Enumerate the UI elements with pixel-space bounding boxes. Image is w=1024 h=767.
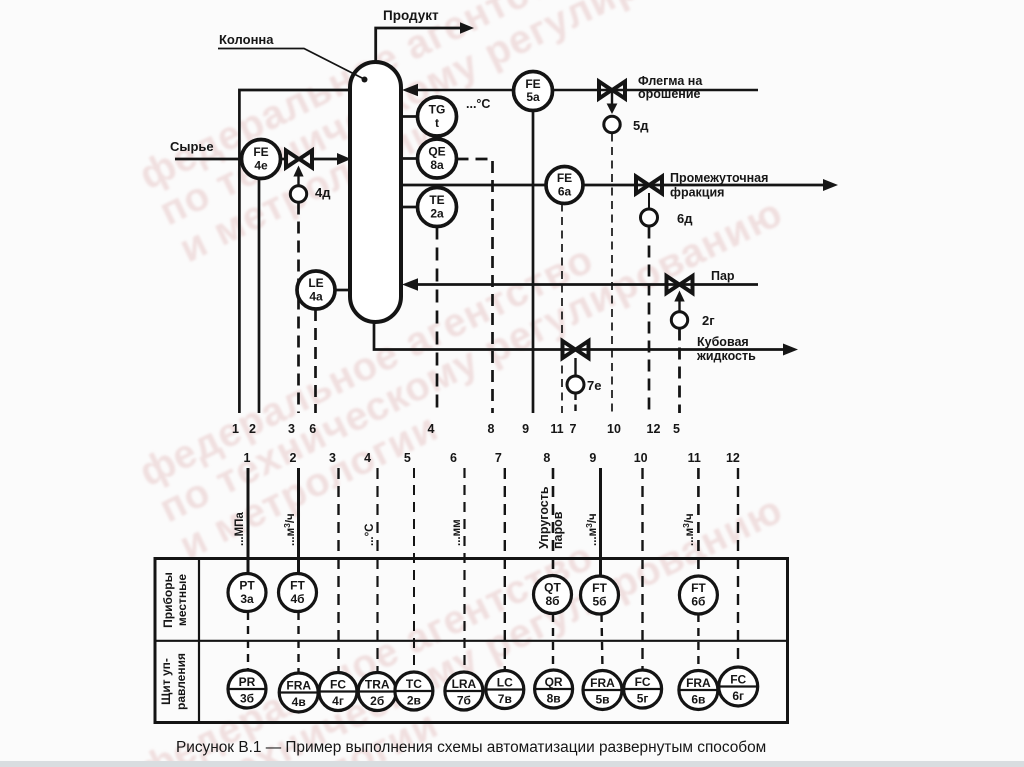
svg-text:FE: FE <box>557 171 572 185</box>
svg-text:QR: QR <box>545 675 563 689</box>
svg-text:4б: 4б <box>290 592 304 606</box>
unit label col6 мм <box>451 519 463 546</box>
table row divider <box>155 640 788 642</box>
instrument FC 4г <box>319 673 357 711</box>
svg-text:LE: LE <box>308 276 323 290</box>
bottom edge shade <box>0 761 1024 767</box>
valve 5д <box>599 82 625 115</box>
wire feed to column <box>312 158 338 161</box>
column <box>350 62 401 322</box>
svg-text:4а: 4а <box>309 290 323 304</box>
instrument QT 8б <box>534 576 572 614</box>
svg-text:Пар: Пар <box>711 269 735 283</box>
caption <box>176 739 766 756</box>
svg-text:LC: LC <box>497 676 513 690</box>
watermark block 2 line 1 <box>133 237 601 495</box>
svg-text:4: 4 <box>428 422 435 436</box>
svg-text:11: 11 <box>550 422 563 436</box>
label 6д <box>677 211 693 226</box>
svg-text:орошение: орошение <box>638 87 701 101</box>
watermark block 2 line 2 <box>153 190 790 531</box>
svg-text:...МПа: ...МПа <box>234 512 246 546</box>
wire line 3 <box>297 203 300 414</box>
table label divider <box>198 559 200 723</box>
svg-text:7: 7 <box>495 451 502 465</box>
valve 7 bottoms <box>563 341 589 376</box>
svg-text:t: t <box>435 116 439 130</box>
wire col10 <box>641 468 643 670</box>
svg-text:...м3/ч: ...м3/ч <box>681 513 696 546</box>
wire line 5 <box>678 329 681 414</box>
svg-text:...м3/ч: ...м3/ч <box>584 513 599 546</box>
svg-text:...°С: ...°С <box>364 524 376 547</box>
instrument LC 7в <box>486 671 524 709</box>
unit label col8 Упругость паров <box>537 486 565 549</box>
svg-text:местные: местные <box>175 574 189 626</box>
svg-text:2г: 2г <box>702 313 715 328</box>
svg-text:паров: паров <box>551 511 565 549</box>
wire line 7 tail <box>574 394 576 414</box>
label ...°C <box>466 97 490 111</box>
svg-text:Кубовая: Кубовая <box>697 335 749 349</box>
actuator 5д <box>604 116 620 132</box>
svg-text:Рисунок В.1 — Пример выполнен: Рисунок В.1 — Пример выполнения схемы ав… <box>176 739 766 756</box>
svg-text:7е: 7е <box>587 378 601 393</box>
arrow steam into column <box>402 278 418 291</box>
svg-text:LRA: LRA <box>452 677 477 691</box>
instrument FC 5г <box>624 670 662 708</box>
watermark block 3 line 1 <box>133 534 601 767</box>
svg-text:FRA: FRA <box>590 676 615 690</box>
instrument QR 8в <box>535 670 573 708</box>
unit label col1 МПа <box>234 512 246 546</box>
svg-text:5в: 5в <box>595 693 609 707</box>
wire col3 <box>337 468 339 673</box>
svg-text:Упругость: Упругость <box>537 486 551 549</box>
svg-text:3: 3 <box>288 422 295 436</box>
svg-text:10: 10 <box>634 451 648 465</box>
svg-text:8: 8 <box>488 422 495 436</box>
instrument TG t <box>402 97 457 136</box>
svg-text:2б: 2б <box>370 694 384 708</box>
svg-text:1: 1 <box>232 422 239 436</box>
wire col2 <box>297 468 300 674</box>
valve 6д <box>636 177 662 210</box>
arrow product <box>460 22 474 33</box>
instrument TRA 2б <box>358 673 396 711</box>
wire reflux return line <box>417 89 758 91</box>
instrument FC 6г <box>719 667 758 706</box>
svg-text:8в: 8в <box>547 692 561 706</box>
instrument FRA 4в <box>279 673 318 712</box>
svg-text:равления: равления <box>174 653 188 710</box>
svg-text:FE: FE <box>525 77 540 91</box>
instrument FE 4e <box>242 140 281 179</box>
svg-text:8а: 8а <box>430 158 444 172</box>
wire col11 <box>697 468 700 670</box>
svg-text:10: 10 <box>607 422 621 436</box>
wire line 4 <box>436 227 439 414</box>
svg-text:TE: TE <box>429 193 444 207</box>
svg-text:6в: 6в <box>691 693 705 707</box>
svg-text:1: 1 <box>244 451 251 465</box>
svg-text:Щит уп-: Щит уп- <box>159 658 173 705</box>
wire line 8 <box>457 159 493 413</box>
svg-text:6: 6 <box>309 422 316 436</box>
instrument FE 5a <box>514 72 553 111</box>
svg-text:QT: QT <box>544 581 561 595</box>
svg-text:жидкость: жидкость <box>696 349 756 363</box>
svg-text:Сырье: Сырье <box>170 139 214 154</box>
svg-text:Приборы: Приборы <box>161 572 175 628</box>
wire feed line <box>175 158 242 161</box>
instrument FT 4б <box>279 574 317 612</box>
wire col6 <box>463 468 465 672</box>
svg-text:4в: 4в <box>292 695 306 709</box>
svg-text:8: 8 <box>543 451 550 465</box>
instrument FRA 5в <box>583 671 622 710</box>
label Продукт <box>383 8 439 23</box>
svg-text:FT: FT <box>691 581 706 595</box>
instrument TE 2a <box>402 188 457 227</box>
arrow intermediate fraction <box>823 179 838 191</box>
instrument LE 4a <box>297 271 350 309</box>
svg-text:TC: TC <box>406 677 422 691</box>
wire bottoms line <box>374 320 784 350</box>
label 5д <box>633 118 649 133</box>
svg-text:...мм: ...мм <box>451 519 463 546</box>
wire col8 <box>552 468 555 670</box>
instrument QE 8a <box>402 139 457 178</box>
svg-text:12: 12 <box>647 422 661 436</box>
instrument PR 3б <box>228 670 266 708</box>
svg-text:3: 3 <box>329 451 336 465</box>
svg-text:2а: 2а <box>430 207 444 221</box>
wire line 11 <box>561 204 563 414</box>
svg-text:QE: QE <box>428 145 445 159</box>
svg-text:5: 5 <box>404 451 411 465</box>
instrument FT 6б <box>679 576 717 614</box>
svg-text:9: 9 <box>589 451 596 465</box>
wire line 9 <box>532 111 535 414</box>
svg-text:8б: 8б <box>545 594 559 608</box>
label Сырье <box>170 139 214 154</box>
wire feed to valve <box>281 158 288 161</box>
svg-text:5б: 5б <box>592 595 606 609</box>
svg-text:...м3/ч: ...м3/ч <box>282 513 297 546</box>
unit label col4 °C <box>364 524 376 547</box>
svg-text:4е: 4е <box>254 159 268 173</box>
svg-text:5: 5 <box>673 422 680 436</box>
wire col5 <box>413 468 415 672</box>
wire col9 <box>601 468 603 670</box>
svg-text:5д: 5д <box>633 118 649 133</box>
label Колонна with leader <box>218 32 368 83</box>
svg-text:фракция: фракция <box>670 186 724 200</box>
wire line 12 <box>648 227 651 414</box>
svg-text:2в: 2в <box>407 694 421 708</box>
svg-text:11: 11 <box>688 451 701 465</box>
watermark block 2 line 3 <box>173 405 445 568</box>
watermark block 1 line 1 <box>133 0 601 198</box>
svg-text:6г: 6г <box>732 689 744 703</box>
svg-text:FRA: FRA <box>686 676 711 690</box>
svg-text:6а: 6а <box>558 185 572 199</box>
label 2г <box>702 313 715 328</box>
valve 2г <box>667 276 693 312</box>
wire steam line <box>418 283 758 286</box>
actuator 7е <box>567 376 584 393</box>
svg-text:...°С: ...°С <box>466 97 490 111</box>
svg-text:FC: FC <box>730 673 746 687</box>
actuator 6д <box>641 209 658 226</box>
svg-text:FC: FC <box>330 678 346 692</box>
wire col4 <box>376 468 378 673</box>
label Пар <box>711 269 735 283</box>
svg-text:7: 7 <box>570 422 577 436</box>
valve 4д <box>286 151 312 168</box>
unit label col2 м3/ч <box>282 513 297 546</box>
label Кубовая жидкость <box>696 335 756 363</box>
wire impulse line 1 top <box>239 90 350 413</box>
svg-text:2: 2 <box>249 422 256 436</box>
wire line 6 <box>314 309 317 413</box>
label Промежуточная фракция <box>670 171 768 200</box>
svg-text:FT: FT <box>290 579 305 593</box>
svg-text:5г: 5г <box>637 692 649 706</box>
svg-text:6д: 6д <box>677 211 693 226</box>
watermark block 3 line 2 <box>153 487 790 767</box>
label Щит управления <box>159 653 188 710</box>
svg-text:FT: FT <box>592 581 607 595</box>
svg-text:PT: PT <box>239 579 255 593</box>
unit label col9 м3/ч <box>584 513 599 546</box>
watermark block 1 line 3 <box>173 108 445 271</box>
svg-text:4: 4 <box>364 451 371 465</box>
svg-text:Промежуточная: Промежуточная <box>670 171 768 185</box>
svg-text:12: 12 <box>726 451 740 465</box>
unit label col11 м3/ч <box>681 513 696 546</box>
wire line 2 <box>258 179 261 414</box>
svg-text:6б: 6б <box>691 595 705 609</box>
instrument PT 3a <box>228 574 266 612</box>
svg-text:4г: 4г <box>332 694 344 708</box>
watermark block 3 line 3 <box>173 702 445 767</box>
svg-text:FC: FC <box>635 675 651 689</box>
svg-text:7б: 7б <box>457 694 471 708</box>
svg-text:Колонна: Колонна <box>219 32 274 47</box>
svg-text:TG: TG <box>429 103 446 117</box>
svg-text:PR: PR <box>239 675 256 689</box>
arrow bottoms <box>783 344 798 356</box>
arrow feed into column <box>337 153 351 165</box>
svg-text:FRA: FRA <box>286 679 311 693</box>
label Флегма на орошение <box>638 74 703 101</box>
label Приборы местные <box>161 572 189 628</box>
wire line 10 <box>611 134 613 414</box>
svg-text:3б: 3б <box>240 692 254 706</box>
svg-text:Флегма на: Флегма на <box>638 74 703 88</box>
svg-text:Продукт: Продукт <box>383 8 439 23</box>
watermark block 1 line 2 <box>153 0 790 234</box>
wire col7 <box>504 468 506 671</box>
svg-text:7в: 7в <box>498 692 512 706</box>
instrument FT 5б <box>581 576 619 614</box>
svg-text:TRA: TRA <box>365 678 390 692</box>
actuator 4д with up arrow <box>290 166 306 203</box>
label 4д <box>315 185 331 200</box>
svg-text:3а: 3а <box>240 592 254 606</box>
instrument FE 6a <box>546 167 583 204</box>
svg-text:5а: 5а <box>526 90 540 104</box>
arrow reflux into column <box>402 84 418 97</box>
svg-text:4д: 4д <box>315 185 331 200</box>
svg-text:9: 9 <box>522 422 529 436</box>
instrument FRA 6в <box>679 671 718 710</box>
instrument TC 2в <box>395 672 433 710</box>
wire product vertical <box>376 28 461 66</box>
svg-text:2: 2 <box>290 451 297 465</box>
wire col12 <box>737 468 739 667</box>
svg-text:6: 6 <box>450 451 457 465</box>
table frame <box>155 559 788 723</box>
wire col1 <box>247 468 250 671</box>
instrument LRA 7б <box>445 672 483 710</box>
node numbers row top <box>232 422 680 436</box>
wire intermediate fraction line <box>402 184 825 187</box>
actuator 2г <box>671 312 687 328</box>
label 7е <box>587 378 601 393</box>
svg-text:FE: FE <box>253 145 268 159</box>
node numbers row bottom <box>244 451 740 465</box>
